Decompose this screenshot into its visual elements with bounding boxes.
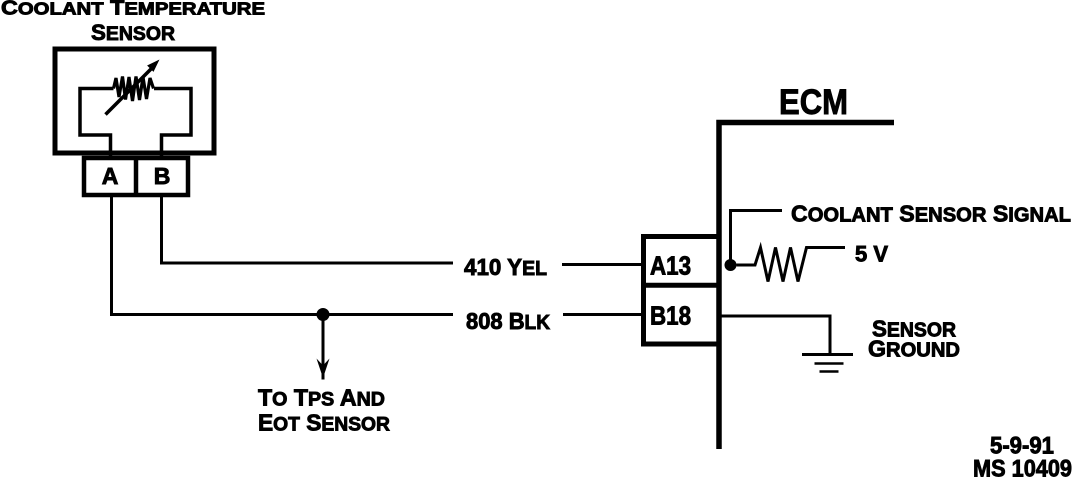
svg-text:410 YEL: 410 YEL	[464, 254, 547, 280]
wire: pin B down to 410 YEL run	[160, 197, 163, 263]
svg-text:COOLANT SENSOR SIGNAL: COOLANT SENSOR SIGNAL	[791, 201, 1071, 227]
variable-resistor arrow shaft	[106, 67, 154, 115]
svg-text:A: A	[102, 163, 119, 189]
svg-text:ECM: ECM	[779, 83, 848, 122]
sensor element outline (right half)	[154, 89, 191, 157]
wire: branch down to TPS/EOT	[322, 315, 325, 380]
junction splice on 808 BLK	[317, 308, 330, 321]
arrowhead to TPS/EOT	[317, 359, 330, 379]
svg-text:EOT SENSOR: EOT SENSOR	[258, 410, 390, 436]
thermistor zigzag (variable resistance element)	[114, 77, 154, 102]
svg-text:TO TPS AND: TO TPS AND	[258, 385, 385, 411]
wire: signal tap up and right	[731, 211, 783, 266]
svg-text:GROUND: GROUND	[868, 336, 960, 362]
pin block (terminals A and B)	[84, 158, 188, 195]
ECM connector cavities A13/B18 (outer box)	[644, 237, 720, 345]
wire: 808 BLK horizontal (left of label)	[110, 313, 453, 316]
svg-text:A13: A13	[650, 251, 691, 281]
variable-resistor arrowhead	[147, 60, 159, 72]
wire: 410 YEL horizontal (left of label)	[160, 262, 453, 265]
svg-text:808 BLK: 808 BLK	[466, 308, 551, 334]
node: coolant sensor signal	[725, 259, 737, 271]
wire: 410 YEL into cavity A13	[562, 263, 641, 266]
svg-text:COOLANT TEMPERATURE: COOLANT TEMPERATURE	[1, 0, 265, 20]
coolant temperature sensor body (outer case)	[55, 49, 214, 153]
connector cavity divider	[641, 283, 722, 288]
sensor element outline (left half)	[80, 89, 114, 157]
ECM boundary line	[719, 123, 894, 450]
svg-text:B18: B18	[650, 301, 691, 331]
svg-text:MS 10409: MS 10409	[973, 456, 1072, 478]
svg-text:SENSOR: SENSOR	[91, 20, 175, 45]
pull-up resistor to 5 V	[737, 248, 846, 282]
svg-text:5 V: 5 V	[855, 242, 888, 267]
pin block divider	[134, 156, 139, 197]
ground symbol bar 3	[820, 370, 839, 373]
wire: sensor ground from B18	[722, 316, 831, 353]
ground symbol bar 1	[802, 353, 853, 356]
wire: 808 BLK into cavity B18	[563, 313, 641, 316]
ground symbol bar 2	[815, 362, 844, 365]
svg-text:B: B	[154, 163, 171, 189]
wire: pin A down to 808 BLK run	[110, 197, 113, 315]
